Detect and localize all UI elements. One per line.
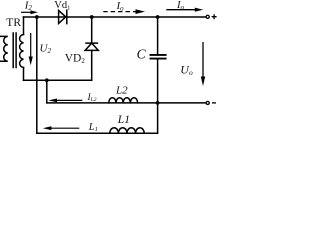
- node dot C (output minus junction): [156, 101, 160, 105]
- wire L2 rail: [47, 102, 206, 104]
- arrow Io dashed: [103, 9, 145, 14]
- svg-text:TR: TR: [6, 17, 21, 29]
- inductor L1: [110, 128, 144, 133]
- wire from node B down: [46, 80, 48, 103]
- arrow I2: [21, 10, 38, 14]
- wire bottom rail: [37, 132, 158, 134]
- transformer TR primary winding: [0, 36, 8, 61]
- wire VD2 riser: [91, 50, 93, 80]
- diode VD2: [85, 17, 98, 50]
- wire secondary top lead: [23, 17, 25, 35]
- capacitor C: [151, 54, 166, 56]
- terminal -: [206, 101, 209, 104]
- wire secondary bottom lead: [23, 68, 25, 81]
- terminal +: [206, 15, 209, 18]
- transformer core: [12, 33, 14, 68]
- svg-text:L1: L1: [117, 114, 130, 126]
- arrow Uo (down): [201, 42, 205, 86]
- arrow Io solid: [166, 8, 203, 12]
- wire left riser: [36, 17, 38, 133]
- transformer TR secondary winding: [20, 35, 24, 68]
- wire lower-left rail: [24, 79, 92, 81]
- arrow L1 current (left): [43, 126, 80, 130]
- arrow IL2 (left): [48, 99, 82, 103]
- node dot B (lower left): [45, 78, 49, 82]
- svg-text:C: C: [137, 47, 147, 62]
- arrow U2 (down): [29, 33, 33, 65]
- node dot A (top left junction): [35, 15, 39, 19]
- diode Vd1: [59, 10, 66, 23]
- inductor L2: [109, 98, 138, 103]
- svg-text:L2: L2: [115, 85, 128, 97]
- wire top rail: [24, 16, 207, 18]
- wire right riser: [157, 17, 159, 54]
- node dot capacitor top: [156, 15, 160, 19]
- node dot VD2 top: [90, 15, 94, 19]
